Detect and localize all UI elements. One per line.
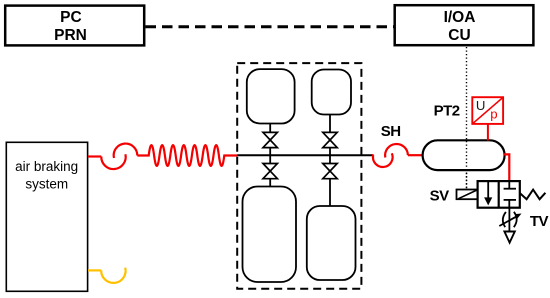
exhaust triangle — [504, 232, 514, 243]
coupling lower hook — [101, 154, 125, 169]
valve V4 (right lower) — [323, 164, 337, 179]
tank 4 (bottom right) — [307, 206, 356, 280]
red pipe tank to SV — [504, 154, 509, 181]
coupling upper hook — [114, 144, 138, 158]
tank 3 (bottom left) — [243, 187, 297, 283]
right branch pipe — [329, 115, 331, 207]
valve V2 (left lower) — [263, 164, 277, 179]
yellow wire with coupling hook — [88, 268, 126, 283]
tank 1 (top left) — [247, 69, 295, 123]
svg-text:I/OA: I/OA — [444, 9, 476, 26]
valve V1 (left upper) — [263, 132, 277, 147]
svg-text:SV: SV — [430, 188, 450, 205]
pressure tank PT2 — [423, 140, 505, 170]
left branch pipe — [269, 124, 271, 187]
throttle adjust arrow — [499, 216, 517, 226]
svg-text:PT2: PT2 — [434, 103, 460, 120]
svg-text:PC: PC — [60, 9, 82, 26]
svg-text:PRN: PRN — [54, 27, 87, 44]
I/OA CU box — [395, 5, 534, 45]
dashed link PC to I/OA — [146, 25, 394, 28]
svg-text:CU: CU — [448, 27, 470, 44]
svg-text:U: U — [476, 98, 486, 113]
air braking system box — [6, 142, 87, 291]
svg-text:system: system — [25, 176, 68, 191]
return spring — [520, 190, 545, 200]
throttle TV arcs — [503, 212, 517, 227]
svg-text:p: p — [490, 106, 497, 121]
dashed reservoir cabinet — [237, 63, 361, 289]
tank 2 (top right) — [312, 70, 351, 115]
SV valve body — [478, 181, 520, 208]
transducer tap — [487, 124, 489, 140]
svg-text:SH: SH — [381, 123, 401, 140]
svg-text:air braking: air braking — [15, 159, 78, 174]
manifold line — [237, 154, 372, 156]
U/p transducer — [472, 97, 503, 140]
SH red coupling — [372, 144, 423, 167]
dotted control line CU to solenoid — [466, 47, 468, 190]
wire stub from box — [88, 155, 101, 157]
coil hose — [137, 145, 237, 166]
dotted line through tank — [466, 141, 468, 189]
PC/PRN box — [5, 6, 144, 46]
solenoid coil — [457, 190, 478, 200]
closed ports right chamber — [504, 181, 516, 208]
svg-text:TV: TV — [530, 213, 549, 230]
flow arrow left chamber — [487, 182, 489, 200]
valve V3 (right upper) — [323, 132, 337, 147]
red supply wire with coupling and coil — [88, 144, 237, 170]
exhaust line — [508, 208, 510, 235]
